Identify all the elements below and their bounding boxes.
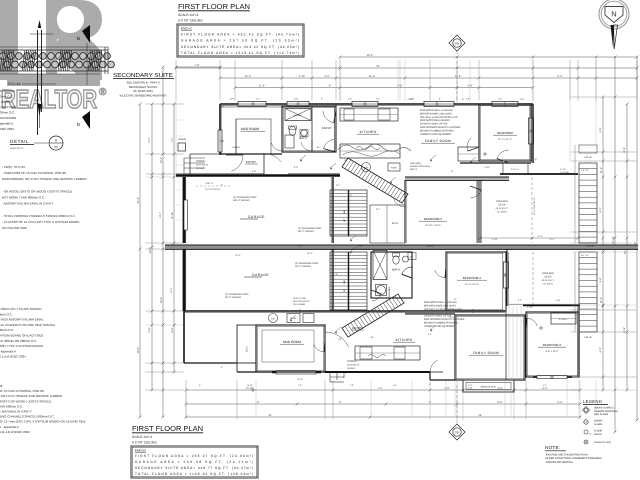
dim right col4 — [636, 57, 638, 420]
svg-text:2'-1"x8'-0": 2'-1"x8'-0" — [559, 318, 568, 321]
lower bedroom2 closet — [551, 313, 576, 324]
upper bedroom window — [529, 118, 534, 144]
svg-text:ED 400mm OR 600mm O.C.: ED 400mm OR 600mm O.C. — [0, 339, 37, 343]
svg-text:14R UP: 14R UP — [584, 156, 592, 159]
lower mudroom window — [272, 371, 321, 373]
svg-text:39.18 SQ.FT.: 39.18 SQ.FT. — [347, 364, 360, 367]
upper garage left wall — [183, 177, 186, 243]
svg-text:19'-4": 19'-4" — [137, 347, 140, 354]
svg-text:2/8x6/8: 2/8x6/8 — [232, 146, 240, 149]
svg-text:KITCHEN: KITCHEN — [360, 130, 377, 134]
svg-text:8": 8" — [321, 98, 323, 101]
svg-text:B: B — [77, 122, 80, 127]
dim bottom row3 — [186, 416, 580, 418]
svg-text:B: B — [77, 36, 80, 41]
svg-text:5'-8": 5'-8" — [599, 277, 602, 282]
svg-text:x 89mm (3½") STUDS SPACED: x 89mm (3½") STUDS SPACED — [0, 307, 43, 311]
SD diamond bottom — [449, 424, 465, 440]
svg-text:YPSUM BOARD ON EACH SIDE: YPSUM BOARD ON EACH SIDE — [0, 334, 44, 338]
lower mudroom — [256, 325, 325, 372]
lower corridor furnace — [287, 314, 300, 323]
svg-text:58'-6": 58'-6" — [367, 54, 374, 57]
svg-text:11'-4" x 11'-2": 11'-4" x 11'-2" — [498, 138, 512, 141]
svg-text:BEDROOM: BEDROOM — [497, 131, 513, 135]
upper bedroom3 — [404, 180, 406, 243]
upper kitchen — [335, 104, 337, 152]
svg-text:11'-4": 11'-4" — [369, 75, 375, 78]
svg-text:18': 18' — [268, 414, 272, 417]
svg-text:9'-2": 9'-2" — [148, 137, 151, 142]
party wall band — [165, 245, 638, 249]
svg-text:49.76 SQ.FT.: 49.76 SQ.FT. — [542, 279, 555, 282]
svg-text:BEHIND PLUMBING FIXTURES,: BEHIND PLUMBING FIXTURES, — [420, 129, 455, 132]
svg-text:SEE WALL & CEILING DETAILS FD: SEE WALL & CEILING DETAILS FD — [424, 308, 462, 311]
svg-text:0mm O.C.: 0mm O.C. — [0, 312, 13, 316]
extension lines left — [145, 103, 184, 105]
svg-text:FURN.: FURN. — [290, 317, 297, 320]
extension lines bottom — [185, 380, 187, 420]
svg-text:BEHIND PLUMBING FIXTURES,: BEHIND PLUMBING FIXTURES, — [424, 321, 459, 324]
svg-text:8'-4": 8'-4" — [170, 287, 173, 292]
svg-text:PORCH: PORCH — [347, 360, 356, 363]
svg-text:5-2": 5-2" — [376, 98, 380, 101]
svg-text:SCALE:1/4"=1: SCALE:1/4"=1 — [132, 435, 153, 439]
svg-text:FIRST FLOOR PLAN: FIRST FLOOR PLAN — [178, 2, 250, 11]
extension lines right — [570, 96, 637, 98]
svg-text:3'-4": 3'-4" — [358, 245, 363, 248]
wall section detail hatched band — [0, 49, 108, 51]
svg-text:6'-0": 6'-0" — [599, 347, 602, 352]
svg-text:14R: 14R — [343, 210, 346, 214]
svg-text:1'48 UP: 1'48 UP — [586, 245, 594, 248]
svg-text:3'-6": 3'-6" — [324, 75, 329, 78]
svg-text:DECK: DECK — [499, 204, 506, 207]
svg-text:7'-8": 7'-8" — [194, 64, 199, 67]
svg-text:6'-2": 6'-2" — [518, 299, 522, 302]
area table (top) — [177, 24, 304, 57]
centerline bottom — [456, 385, 458, 424]
svg-text:BEDROOM-3: BEDROOM-3 — [424, 217, 443, 221]
upper bedroom closet — [458, 147, 479, 161]
detail bubble A — [49, 136, 63, 150]
svg-text:W.I.C.: W.I.C. — [392, 222, 399, 225]
right stair lower — [579, 252, 597, 332]
svg-text:6'-2": 6'-2" — [599, 207, 602, 212]
right stair lower landing — [574, 252, 576, 332]
svg-text:DRAIN: DRAIN — [594, 433, 602, 436]
svg-text:4": 4" — [329, 85, 331, 88]
svg-text:ON CEILING SIDE: ON CEILING SIDE — [2, 226, 27, 230]
svg-text:15-10": 15-10" — [247, 384, 253, 387]
svg-text:2'8": 2'8" — [344, 159, 348, 162]
svg-text:HAN 600mm O.C.: HAN 600mm O.C. — [0, 404, 23, 408]
svg-text:6'-10": 6'-10" — [492, 238, 498, 241]
svg-text:11'-4": 11'-4" — [537, 235, 543, 238]
extension hairlines top/bottom — [219, 60, 221, 101]
upper bedroom — [479, 104, 531, 161]
svg-text:LINE OF: LINE OF — [205, 182, 214, 185]
extension lines top — [175, 60, 177, 100]
svg-text:- ON WOOD JOISTS OR WOOD I-JOI: - ON WOOD JOISTS OR WOOD I-JOISTS SPACED — [2, 189, 73, 193]
lower bottom wall left — [237, 371, 325, 373]
dim left col2 — [162, 67, 164, 417]
svg-text:22'-4": 22'-4" — [235, 254, 241, 257]
svg-text:7'-2": 7'-2" — [377, 387, 382, 390]
upper front wall — [176, 174, 340, 176]
dim right col2 — [614, 57, 616, 432]
lower hall lines — [508, 306, 510, 377]
svg-text:SECONDARY SUITE: SECONDARY SUITE — [113, 72, 173, 79]
svg-text:SEPARATION WALL: SEPARATION WALL — [410, 165, 431, 168]
svg-text:8'-8": 8'-8" — [497, 401, 502, 404]
lower window seat — [463, 380, 514, 392]
lower bath block — [371, 252, 412, 298]
lower front wall — [325, 371, 430, 373]
svg-text:9'-8" x 10'-2": 9'-8" x 10'-2" — [546, 350, 559, 353]
dim top 7-8 — [176, 66, 220, 68]
svg-text:- 2 LAYERS OF 12.7mm (1/2") TY: - 2 LAYERS OF 12.7mm (1/2") TYPE X GYPSU… — [2, 220, 80, 224]
svg-text:5'-0": 5'-0" — [294, 166, 299, 169]
svg-text:11'-4": 11'-4" — [549, 238, 554, 241]
svg-text:MUD ROOM: MUD ROOM — [283, 340, 301, 344]
svg-text:FAMILY ROOM: FAMILY ROOM — [473, 351, 499, 355]
svg-text:FIRST FLOOR AREA = 452.41 S: FIRST FLOOR AREA = 452.41 SQ.FT. [45.75m… — [181, 33, 299, 37]
leader arrows — [300, 155, 306, 160]
svg-text:00mm O.C.: 00mm O.C. — [0, 94, 14, 98]
upper garage right wall — [332, 177, 334, 243]
lower diagonal stair — [342, 294, 404, 337]
svg-text:1'-10": 1'-10" — [527, 306, 533, 309]
svg-text:FIRST FLOOR PLAN: FIRST FLOOR PLAN — [132, 424, 203, 433]
upper wall windows — [238, 102, 266, 107]
lower bedroomA — [446, 252, 506, 311]
centerline top — [456, 51, 458, 100]
svg-text:16-8": 16-8" — [230, 98, 235, 101]
svg-text:(5/8") TYPE X GYPSUM BOARD: (5/8") TYPE X GYPSUM BOARD — [0, 344, 44, 348]
svg-text:L CACP DGS: L CACP DGS — [0, 105, 16, 109]
svg-text:3-6": 3-6" — [298, 384, 302, 387]
svg-text:CABINETS AND EQUIPMENT: CABINETS AND EQUIPMENT — [420, 133, 452, 136]
svg-text:4-2": 4-2" — [543, 384, 547, 387]
svg-text:9'-2": 9'-2" — [171, 327, 174, 332]
svg-text:SCALE:1/4"=1: SCALE:1/4"=1 — [178, 13, 199, 17]
svg-text:11'-2": 11'-2" — [600, 167, 603, 173]
upper wall y161 — [460, 162, 531, 164]
svg-text:7'-1": 7'-1" — [171, 137, 174, 142]
svg-text:11 7/8": 11 7/8" — [560, 168, 566, 171]
svg-text:14R UP: 14R UP — [584, 336, 592, 339]
svg-text:BCBC 2024: BCBC 2024 — [0, 127, 14, 131]
svg-text:GARAGE AREA = 257.58: GARAGE AREA = 257.58 SQ.FT. [23.93m²] — [181, 39, 299, 43]
svg-text:2-8": 2-8" — [466, 98, 470, 101]
lower bedroom2 window — [533, 376, 572, 378]
double wall inner lines — [480, 105, 530, 160]
svg-text:#3: #3 — [54, 145, 58, 149]
svg-text:11'-2": 11'-2" — [600, 297, 603, 303]
svg-text:FIRST FLOOR AREA = 258.97 S: FIRST FLOOR AREA = 258.97 SQ.FT. [24.06m… — [135, 454, 253, 458]
dim left col3 — [173, 104, 175, 372]
dim top row4 — [235, 87, 533, 89]
svg-text:8": 8" — [439, 98, 441, 101]
svg-text:- SUBFLOOR OF 15.5mm PLYWOOD,: - SUBFLOOR OF 15.5mm PLYWOOD, OSB OR — [2, 171, 67, 175]
svg-text:5'-2": 5'-2" — [376, 208, 381, 211]
svg-text:2'8": 2'8" — [338, 338, 342, 341]
svg-text:9.11.1.B of BCBC 2024: 9.11.1.B of BCBC 2024 — [0, 430, 30, 434]
svg-text:2'-8": 2'-8" — [533, 158, 538, 161]
upper bath block — [282, 106, 336, 152]
svg-text:W/J-413888: W/J-413888 — [293, 303, 306, 306]
svg-text:OF 15.5mm PLYWOOD, OSB OR: OF 15.5mm PLYWOOD, OSB OR — [0, 389, 45, 393]
svg-text:4'-2": 4'-2" — [557, 401, 562, 404]
svg-text:BATH: BATH — [299, 136, 306, 140]
north arrow compass — [599, 0, 629, 29]
dim bottom row1 — [186, 389, 580, 391]
lower bedroom2 — [526, 312, 579, 377]
svg-text:BETWEEN DWELLING UNITS: BETWEEN DWELLING UNITS — [424, 304, 456, 307]
upper diagonal stair — [342, 158, 408, 203]
svg-text:GOLD COML: GOLD COML — [293, 297, 307, 300]
right wall upper — [532, 104, 534, 163]
svg-text:ALARM: ALARM — [594, 423, 602, 426]
svg-text:TOTAL FLOOR AREA = 1168.32: TOTAL FLOOR AREA = 1168.32 SQ.FT. [108.5… — [135, 472, 253, 476]
svg-text:UP: UP — [343, 288, 346, 292]
svg-text:BEDROOM-A: BEDROOM-A — [463, 276, 482, 280]
svg-text:END.#2: END.#2 — [181, 27, 192, 31]
svg-text:56': 56' — [376, 65, 380, 68]
svg-text:FIRE RATED WALL & CEILING: FIRE RATED WALL & CEILING — [420, 109, 453, 112]
svg-text:36"-0" HEIGHT: 36"-0" HEIGHT — [295, 265, 312, 268]
upper deck — [479, 177, 481, 243]
svg-text:- ABSORPTIVE MATERIAL IN CAVIT: - ABSORPTIVE MATERIAL IN CAVITY — [2, 202, 54, 206]
svg-text:SECONDARY SUITE AREA= 463.42: SECONDARY SUITE AREA= 463.42 SQ.FT. [43.… — [181, 45, 299, 49]
svg-text:, OR 17mm TONGUE AND GROOVE LU: , OR 17mm TONGUE AND GROOVE LUMBER — [0, 394, 63, 398]
upper sofa sketch — [338, 144, 411, 151]
svg-text:36"-0" HEIGHT: 36"-0" HEIGHT — [225, 296, 242, 299]
svg-text:WINDOW SEAT: WINDOW SEAT — [481, 386, 497, 389]
svg-text:FIRE SEPARATION MUST CONTINUE: FIRE SEPARATION MUST CONTINUE — [424, 318, 465, 321]
upper entry door arc — [264, 154, 281, 163]
svg-text:2-8" TYP: 2-8" TYP — [581, 254, 589, 257]
svg-text:(CO) ALARM: (CO) ALARM — [594, 413, 608, 416]
svg-text:B.I.C.: B.I.C. — [246, 346, 249, 352]
svg-text:2'-8": 2'-8" — [444, 387, 449, 390]
svg-text:FLOOR ABOVE: FLOOR ABOVE — [205, 188, 221, 191]
lower fire wall y311 ext — [405, 311, 455, 314]
svg-text:ENTRY: ENTRY — [322, 126, 332, 130]
svg-text:600mm O.C.: 600mm O.C. — [0, 111, 15, 115]
svg-text:12'-10": 12'-10" — [449, 316, 456, 319]
area table (bottom) — [131, 446, 258, 478]
dim bottom row2 — [186, 403, 580, 405]
svg-text:4": 4" — [199, 384, 201, 387]
svg-text:5-0": 5-0" — [393, 384, 397, 387]
svg-text:11-4": 11-4" — [498, 98, 503, 101]
lower deck — [506, 249, 508, 306]
svg-text:NOT MORE THAN 600mm O.C.: NOT MORE THAN 600mm O.C. — [2, 196, 45, 200]
svg-text:2'-0"x1'-4": 2'-0"x1'-4" — [511, 168, 520, 171]
svg-text:13'-10": 13'-10" — [427, 245, 434, 248]
svg-text:RING CHANNELS SPACED 600mm O.C: RING CHANNELS SPACED 600mm O.C. — [0, 415, 55, 419]
svg-text:10'-1": 10'-1" — [159, 212, 162, 218]
svg-text:20'-4": 20'-4" — [307, 252, 313, 255]
svg-text:4'-10": 4'-10" — [555, 299, 561, 302]
svg-text:21'-2": 21'-2" — [137, 197, 140, 204]
svg-text:ROOF LINE ABOVE: ROOF LINE ABOVE — [533, 197, 536, 215]
svg-text:LAUNDRY: LAUNDRY — [388, 286, 391, 297]
upper left wall — [219, 104, 221, 155]
svg-text:CABINETS AND EQUIPMENT: CABINETS AND EQUIPMENT — [424, 325, 456, 328]
svg-text:UP: UP — [343, 218, 346, 222]
svg-text:13'-2": 13'-2" — [160, 297, 163, 304]
svg-text:SHOWER: SHOWER — [293, 114, 303, 117]
svg-text:W/EC3: W/EC3 — [410, 168, 418, 171]
svg-text:- Appendix A: - Appendix A — [0, 349, 16, 353]
svg-text:N: N — [611, 10, 616, 19]
svg-text:00mm O.C.: 00mm O.C. — [0, 328, 15, 332]
svg-text:(11.28m²): (11.28m²) — [543, 283, 553, 286]
svg-text:49.76 SQ.FT.: 49.76 SQ.FT. — [496, 207, 509, 210]
svg-text:5'-10": 5'-10" — [299, 75, 306, 78]
svg-text:NOTE:: NOTE: — [545, 445, 560, 450]
upper entry door arc2 — [231, 155, 243, 171]
svg-text:12'-6": 12'-6" — [623, 327, 626, 333]
svg-text:GARAGE: GARAGE — [248, 215, 265, 219]
dim right col1 — [602, 97, 604, 390]
svg-text:ED SPACED: ED SPACED — [0, 89, 16, 93]
svg-text:3/0x6/8: 3/0x6/8 — [178, 138, 187, 141]
svg-text:(3.64m²): (3.64m²) — [347, 367, 356, 370]
svg-text:3.1.A of BCBC 2024: 3.1.A of BCBC 2024 — [0, 355, 26, 359]
svg-text:B - Appendix A: B - Appendix A — [0, 425, 19, 429]
svg-text:BETWEEN DWELLING UNITS: BETWEEN DWELLING UNITS — [420, 112, 452, 115]
svg-text:15'-4": 15'-4" — [455, 75, 462, 78]
upper porch steps — [184, 157, 205, 159]
right stair upper — [579, 163, 597, 243]
svg-text:TYP. RISE: TYP. RISE — [560, 171, 570, 174]
svg-text:(3.41m²): (3.41m²) — [196, 167, 205, 170]
svg-text:TAL CHANNELS ON ONE SIDE SPACE: TAL CHANNELS ON ONE SIDE SPACED — [0, 323, 56, 327]
svg-text:SECONDARY SUITE AREA= 648.77: SECONDARY SUITE AREA= 648.77 SQ.FT. [60.… — [135, 466, 253, 470]
extension hairlines sides — [146, 103, 183, 105]
svg-text:14R: 14R — [343, 280, 346, 284]
svg-text:- STEEL FURRING CHANNELS SPACE: - STEEL FURRING CHANNELS SPACED 400mm O.… — [2, 214, 76, 218]
dim right col3 — [626, 104, 628, 390]
svg-text:FAMILY ROOM: FAMILY ROOM — [425, 139, 451, 143]
svg-text:-FORCED AIR HEATING: -FORCED AIR HEATING — [545, 461, 573, 464]
svg-text:JOISTS OR WOOD I-JOISTS SPACED: JOISTS OR WOOD I-JOISTS SPACED — [0, 399, 52, 403]
svg-text:15'-2": 15'-2" — [245, 75, 252, 78]
SD diamond top — [449, 35, 465, 51]
svg-text:3-1": 3-1" — [256, 98, 260, 101]
svg-text:*ELECTRIC BASEBOARD HEATING*: *ELECTRIC BASEBOARD HEATING* — [119, 93, 167, 97]
svg-text:4.8/7: 4.8/7 — [271, 317, 275, 320]
svg-text:4-10": 4-10" — [294, 98, 299, 101]
lower closet col — [237, 325, 256, 363]
section marker B bottom — [82, 111, 90, 129]
upper top wall — [220, 103, 533, 105]
svg-text:10'-10" x 10'-0": 10'-10" x 10'-0" — [425, 224, 441, 227]
lower family room — [455, 315, 525, 380]
svg-text:9-0 7/8" CEILING: 9-0 7/8" CEILING — [178, 19, 203, 23]
svg-text:36.76 SQ.FT.: 36.76 SQ.FT. — [196, 164, 209, 167]
svg-text:3'-1": 3'-1" — [336, 184, 341, 187]
svg-text:3'-1": 3'-1" — [428, 333, 433, 336]
svg-text:9'-8": 9'-8" — [148, 327, 151, 332]
svg-text:9-0 7/8" CEILING: 9-0 7/8" CEILING — [132, 441, 157, 445]
svg-text:8": 8" — [462, 98, 464, 101]
svg-text:4": 4" — [221, 184, 223, 187]
svg-text:TOTAL FLOOR AREA = 1213.41: TOTAL FLOOR AREA = 1213.41 SQ.FT. [112.7… — [181, 51, 299, 55]
svg-text:11-2": 11-2" — [468, 384, 473, 387]
svg-text:- FW(h): STC≈43: - FW(h): STC≈43 — [2, 165, 25, 169]
svg-text:PORCH: PORCH — [196, 160, 205, 163]
upper bedroom3 right wall — [477, 180, 479, 243]
lower porch steps — [329, 372, 331, 382]
svg-text:2'-2": 2'-2" — [298, 245, 303, 248]
dim left col0 — [139, 104, 141, 417]
svg-text:GARAGE AREA = 260.38: GARAGE AREA = 260.38 SQ.FT. [24.21m²] — [135, 460, 253, 464]
svg-text:ONE HR(F): ONE HR(F) — [410, 162, 422, 165]
svg-text:25'-10": 25'-10" — [612, 236, 615, 244]
svg-text:7'-8": 7'-8" — [334, 273, 339, 276]
svg-text:43: 43 — [0, 384, 3, 388]
svg-text:RECUPERATOR: RECUPERATOR — [293, 300, 310, 303]
svg-text:SEE WALL & CEILING DETAILS FD: SEE WALL & CEILING DETAILS FD — [420, 116, 458, 119]
dim top row3 — [220, 77, 637, 79]
svg-text:KITCHEN: KITCHEN — [396, 338, 413, 342]
svg-text:6'-2": 6'-2" — [557, 75, 562, 78]
svg-text:3'-6": 3'-6" — [348, 194, 353, 197]
svg-text:-EXISTING AND FOUNDATION PLAN: -EXISTING AND FOUNDATION PLAN — [545, 454, 588, 457]
svg-text:DECK: DECK — [545, 276, 552, 279]
svg-text:5'-0": 5'-0" — [252, 170, 257, 173]
lower right wall — [578, 306, 580, 377]
svg-text:2'-8": 2'-8" — [520, 98, 525, 101]
dim left col1 — [151, 104, 153, 390]
extra door arcs — [271, 143, 282, 151]
lower left wall — [183, 311, 185, 363]
svg-text:11'-4" x 11'-0": 11'-4" x 11'-0" — [465, 283, 479, 286]
svg-text:Appendix A: Appendix A — [0, 121, 13, 125]
lower central stair — [330, 252, 367, 310]
svg-text:MUD ROOM: MUD ROOM — [241, 127, 259, 131]
svg-text:STC≈43: STC≈43 — [8, 82, 21, 86]
svg-text:2-8": 2-8" — [350, 384, 354, 387]
svg-text:DETAIL: DETAIL — [10, 139, 29, 144]
svg-text:4'-2": 4'-2" — [542, 387, 547, 390]
right stair rails — [574, 145, 576, 243]
upper furn — [388, 163, 400, 171]
svg-text:2'-10": 2'-10" — [407, 256, 413, 259]
svg-text:THICK ABSORPTIVE MATERIAL: THICK ABSORPTIVE MATERIAL — [0, 318, 44, 322]
upper porch — [190, 153, 220, 155]
svg-text:EXHAUST FAN: EXHAUST FAN — [594, 441, 611, 444]
section marker B top — [82, 25, 90, 43]
dim top 58-6 — [340, 56, 637, 58]
svg-text:ENTRY: ENTRY — [246, 160, 256, 164]
svg-text:4-10": 4-10" — [410, 98, 415, 101]
svg-text:BEDROOM-2: BEDROOM-2 — [543, 343, 562, 347]
svg-text:36C-0" HEIGHT: 36C-0" HEIGHT — [233, 199, 251, 202]
svg-text:ON BOTH SIDES OF THE: ON BOTH SIDES OF THE — [420, 123, 448, 126]
svg-text:44'-0": 44'-0" — [149, 247, 152, 254]
svg-text:4.8/7: 4.8/7 — [364, 166, 368, 169]
upper central stair — [330, 190, 367, 236]
section line A vertical — [37, 30, 39, 135]
dim top 56 — [176, 67, 637, 69]
svg-text:GARAGE: GARAGE — [252, 273, 269, 277]
svg-text:N BOARD: N BOARD — [0, 100, 13, 104]
